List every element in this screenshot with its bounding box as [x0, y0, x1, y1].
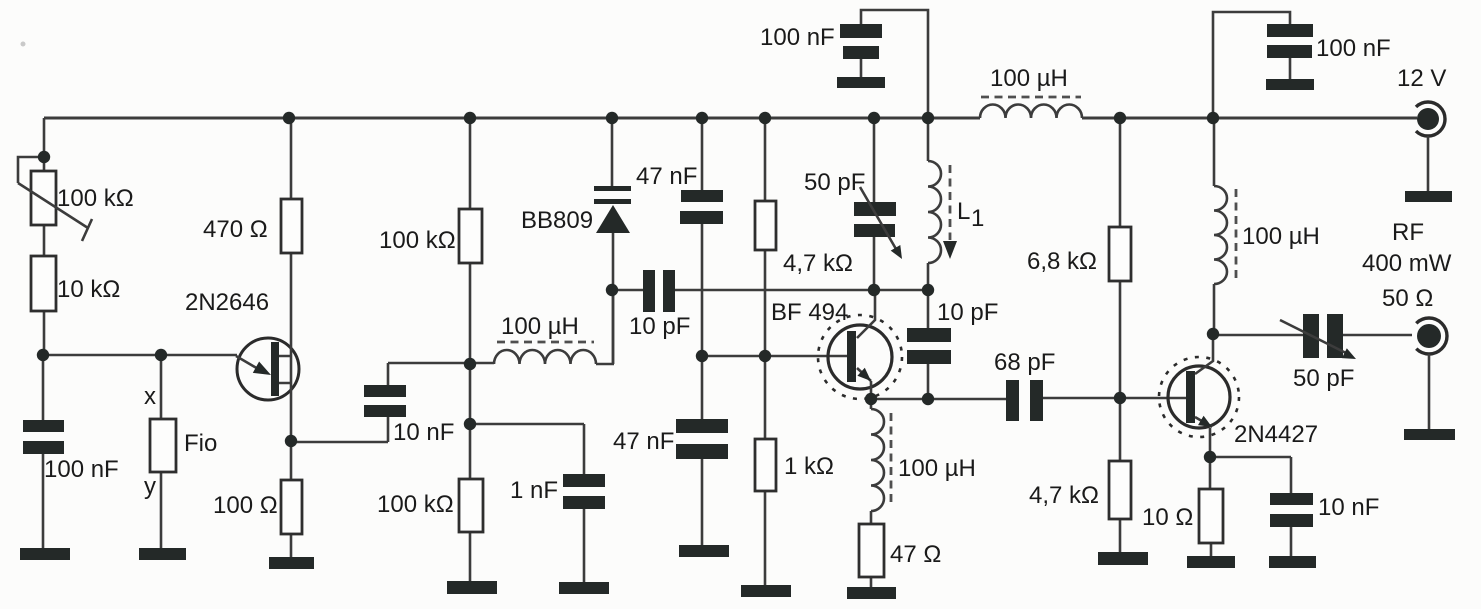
- svg-text:BF 494: BF 494: [771, 299, 848, 326]
- svg-text:100 kΩ: 100 kΩ: [57, 185, 134, 212]
- svg-text:400 mW: 400 mW: [1362, 250, 1452, 277]
- svg-text:10 nF: 10 nF: [1318, 494, 1379, 521]
- svg-text:10 Ω: 10 Ω: [1142, 504, 1193, 531]
- svg-text:Fio: Fio: [184, 430, 217, 457]
- svg-text:x: x: [144, 383, 156, 410]
- svg-text:2N2646: 2N2646: [185, 289, 269, 316]
- svg-text:100 kΩ: 100 kΩ: [377, 491, 454, 518]
- svg-text:100 µH: 100 µH: [898, 455, 976, 482]
- svg-text:1: 1: [971, 205, 984, 232]
- svg-text:2N4427: 2N4427: [1234, 421, 1318, 448]
- svg-text:100 µH: 100 µH: [1242, 223, 1320, 250]
- svg-text:100 µH: 100 µH: [501, 313, 579, 340]
- svg-text:4,7 kΩ: 4,7 kΩ: [1029, 482, 1099, 509]
- svg-text:10 pF: 10 pF: [629, 313, 690, 340]
- svg-text:10 pF: 10 pF: [937, 299, 998, 326]
- svg-text:50 pF: 50 pF: [1293, 365, 1354, 392]
- svg-text:47 Ω: 47 Ω: [890, 541, 941, 568]
- svg-text:68 pF: 68 pF: [994, 349, 1055, 376]
- svg-text:6,8 kΩ: 6,8 kΩ: [1027, 248, 1097, 275]
- svg-text:100 kΩ: 100 kΩ: [379, 227, 456, 254]
- svg-text:100 nF: 100 nF: [1316, 35, 1391, 62]
- svg-text:100 Ω: 100 Ω: [213, 492, 278, 519]
- svg-text:12 V: 12 V: [1397, 65, 1446, 92]
- svg-text:1 kΩ: 1 kΩ: [784, 453, 834, 480]
- svg-text:100 µH: 100 µH: [990, 65, 1068, 92]
- svg-text:47 nF: 47 nF: [636, 163, 697, 190]
- svg-text:y: y: [144, 473, 156, 500]
- svg-text:47 nF: 47 nF: [613, 428, 674, 455]
- svg-text:BB809: BB809: [521, 207, 593, 234]
- svg-text:470 Ω: 470 Ω: [203, 216, 268, 243]
- svg-text:50 pF: 50 pF: [804, 169, 865, 196]
- svg-text:10 nF: 10 nF: [393, 419, 454, 446]
- svg-text:L: L: [957, 198, 970, 225]
- svg-text:100 nF: 100 nF: [44, 456, 119, 483]
- svg-text:4,7 kΩ: 4,7 kΩ: [783, 250, 853, 277]
- svg-text:RF: RF: [1392, 219, 1424, 246]
- svg-text:100 nF: 100 nF: [760, 24, 835, 51]
- svg-text:50 Ω: 50 Ω: [1382, 285, 1433, 312]
- svg-text:1 nF: 1 nF: [510, 477, 558, 504]
- svg-text:10 kΩ: 10 kΩ: [57, 276, 120, 303]
